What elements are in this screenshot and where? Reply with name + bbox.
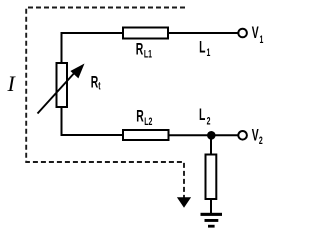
current arrowhead — [177, 197, 191, 208]
svg-text:t: t — [98, 80, 100, 92]
svg-text:L: L — [199, 38, 205, 56]
resistor RL2 — [123, 130, 169, 140]
svg-text:R: R — [91, 73, 99, 91]
node junction dot — [207, 131, 216, 140]
label RL2 — [136, 107, 152, 127]
label Rt — [91, 73, 101, 92]
svg-text:1: 1 — [260, 33, 264, 45]
current loop dashed path — [26, 8, 185, 199]
Rt arrow — [38, 70, 78, 114]
label L1 — [199, 38, 210, 58]
wire resistor to ground — [210, 199, 212, 213]
thermistor Rt — [57, 63, 68, 107]
svg-text:2: 2 — [207, 115, 211, 127]
svg-text:V: V — [252, 24, 260, 42]
svg-text:L: L — [199, 106, 205, 124]
label V1 — [252, 24, 264, 46]
label L2 — [199, 106, 210, 127]
svg-text:R: R — [136, 40, 144, 58]
wire top-left corner — [62, 33, 124, 63]
svg-text:1: 1 — [207, 46, 211, 58]
wire L2 — [169, 134, 239, 136]
ground — [201, 213, 223, 228]
wire junction to resistor — [210, 135, 212, 154]
terminal V1 — [238, 29, 247, 38]
label RL1 — [136, 40, 152, 59]
svg-text:2: 2 — [259, 135, 263, 147]
terminal V2 — [238, 131, 247, 140]
resistor (load to ground) — [206, 155, 217, 200]
wire L1 — [168, 32, 238, 34]
svg-text:R: R — [136, 107, 144, 125]
resistor RL1 — [123, 28, 168, 39]
svg-text:L1: L1 — [144, 48, 152, 60]
svg-text:L2: L2 — [144, 116, 152, 128]
svg-text:V: V — [252, 126, 260, 144]
wire bottom-left corner — [62, 107, 124, 135]
label V2 — [252, 126, 263, 147]
